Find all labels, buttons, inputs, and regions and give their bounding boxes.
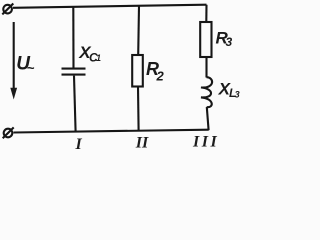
- svg-text:~: ~: [27, 60, 35, 75]
- svg-text:I: I: [75, 136, 83, 150]
- svg-text:1: 1: [96, 53, 101, 63]
- svg-text:3: 3: [235, 90, 240, 100]
- svg-text:2: 2: [156, 69, 165, 84]
- svg-text:III: III: [192, 134, 219, 151]
- svg-text:II: II: [135, 135, 149, 151]
- svg-text:3: 3: [226, 35, 233, 49]
